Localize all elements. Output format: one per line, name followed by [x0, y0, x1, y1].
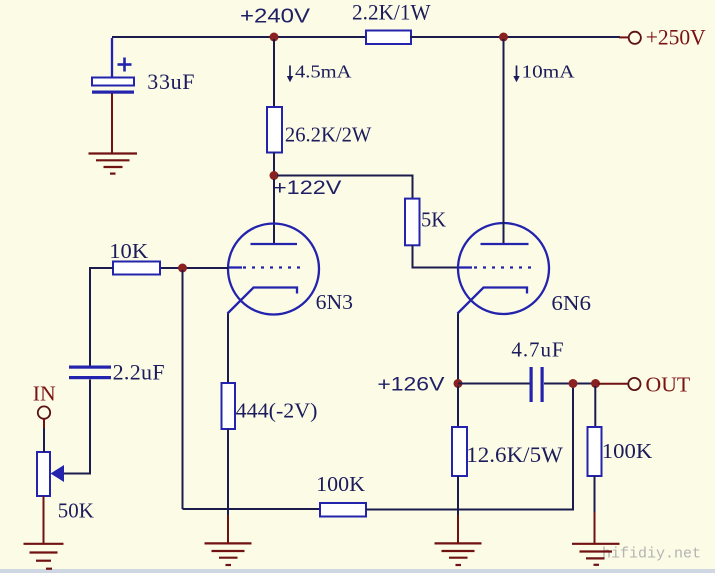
resistor R5 444(-2V) [222, 383, 236, 429]
terminal +250V [619, 32, 641, 44]
resistor R6 100K feedback [320, 503, 366, 517]
node +126V junction [454, 379, 463, 388]
svg-text:+122V: +122V [273, 178, 342, 199]
ground under R8 [572, 544, 620, 565]
svg-text:5K: 5K [421, 208, 446, 232]
resistor R2 26.2K/2W [267, 107, 282, 153]
wire C1 top lead [111, 38, 113, 78]
svg-text:OUT: OUT [646, 373, 691, 397]
wire V1 plate lead [273, 179, 275, 243]
wire feedback rail right up to output node [366, 384, 573, 510]
svg-text:6N3: 6N3 [316, 290, 353, 314]
svg-text:+240V: +240V [240, 5, 311, 27]
wire top rail left segment [112, 36, 367, 38]
wire +122V node to R3 [277, 176, 413, 200]
svg-text:10mA: 10mA [522, 62, 575, 82]
wire RP1 to ground [43, 496, 45, 543]
svg-text:hifidiy.net: hifidiy.net [602, 546, 701, 563]
wire 10K right lead to V1 grid [160, 267, 229, 269]
ground under R7 [435, 543, 482, 565]
svg-text:12.6K/5W: 12.6K/5W [466, 442, 563, 467]
svg-text:50K: 50K [58, 499, 94, 523]
wire C2 bottom to wiper [64, 380, 90, 474]
capacitor C3 4.7uF [530, 367, 544, 402]
wire V1 cathode down to R5 [227, 314, 229, 384]
label current arrow 4.5mA [287, 62, 352, 83]
resistor R1 2.2K/1W [366, 31, 411, 45]
label current arrow 10mA [513, 62, 574, 83]
resistor R3 5K [405, 199, 420, 246]
wire R8 to ground [594, 476, 596, 543]
wire output node B to R8 [594, 386, 596, 427]
wire R7 to ground [457, 476, 459, 543]
wire IN terminal to RP1 [43, 419, 45, 452]
terminal OUT [598, 378, 641, 390]
wire R2 to +122V node [273, 153, 275, 176]
wire C1 ground lead [111, 94, 113, 154]
wire 10K left lead down to C2 [90, 268, 113, 366]
wire feedback rail left [183, 508, 321, 510]
potentiometer RP1 50K [37, 452, 64, 496]
svg-text:100K: 100K [602, 439, 653, 463]
node +240V junction [270, 33, 279, 42]
wire V2 cathode down to +126V node [457, 314, 459, 384]
wire V2 plate lead [503, 39, 505, 243]
node plate junction V2 [499, 33, 508, 42]
node grid junction [178, 264, 187, 273]
wire top rail right segment [410, 36, 620, 38]
wire C3 to OUT terminal [544, 383, 599, 385]
svg-text:+250V: +250V [646, 25, 706, 50]
svg-text:4.7uF: 4.7uF [511, 338, 563, 362]
resistor R8 100K output [588, 427, 602, 476]
ground under R5 [205, 543, 252, 565]
svg-text:6N6: 6N6 [551, 291, 591, 315]
svg-text:26.2K/2W: 26.2K/2W [285, 123, 372, 147]
svg-text:+126V: +126V [377, 375, 444, 396]
wire +126V node to R7 [457, 386, 459, 427]
wire +240V node to R2 [273, 39, 275, 108]
capacitor C2 2.2uF [69, 366, 111, 380]
resistor R4 10K [113, 262, 160, 275]
ground under C1 [89, 154, 138, 174]
tube V2 6N6 [458, 223, 550, 314]
ground under RP1 [24, 544, 64, 569]
wire +126V node to C3 [458, 383, 530, 385]
node output junction A [569, 379, 578, 388]
svg-text:2.2uF: 2.2uF [113, 360, 165, 385]
wire grid node down to feedback rail [182, 270, 184, 509]
svg-text:IN: IN [33, 382, 56, 406]
terminal IN [38, 406, 50, 418]
wire R5 to ground [227, 429, 229, 543]
node +122V junction [270, 171, 279, 180]
resistor R7 12.6K/5W [452, 427, 467, 476]
svg-text:33uF: 33uF [147, 69, 194, 94]
svg-text:2.2K/1W: 2.2K/1W [352, 0, 431, 24]
tube V1 6N3 [228, 224, 320, 315]
capacitor C1 33uF polarized [92, 58, 134, 94]
svg-text:10K: 10K [109, 239, 148, 263]
node output junction B [591, 379, 600, 388]
svg-text:444(-2V): 444(-2V) [236, 398, 318, 422]
svg-text:100K: 100K [316, 472, 365, 496]
wire R3 to V2 grid [413, 245, 459, 267]
svg-text:4.5mA: 4.5mA [295, 62, 352, 82]
